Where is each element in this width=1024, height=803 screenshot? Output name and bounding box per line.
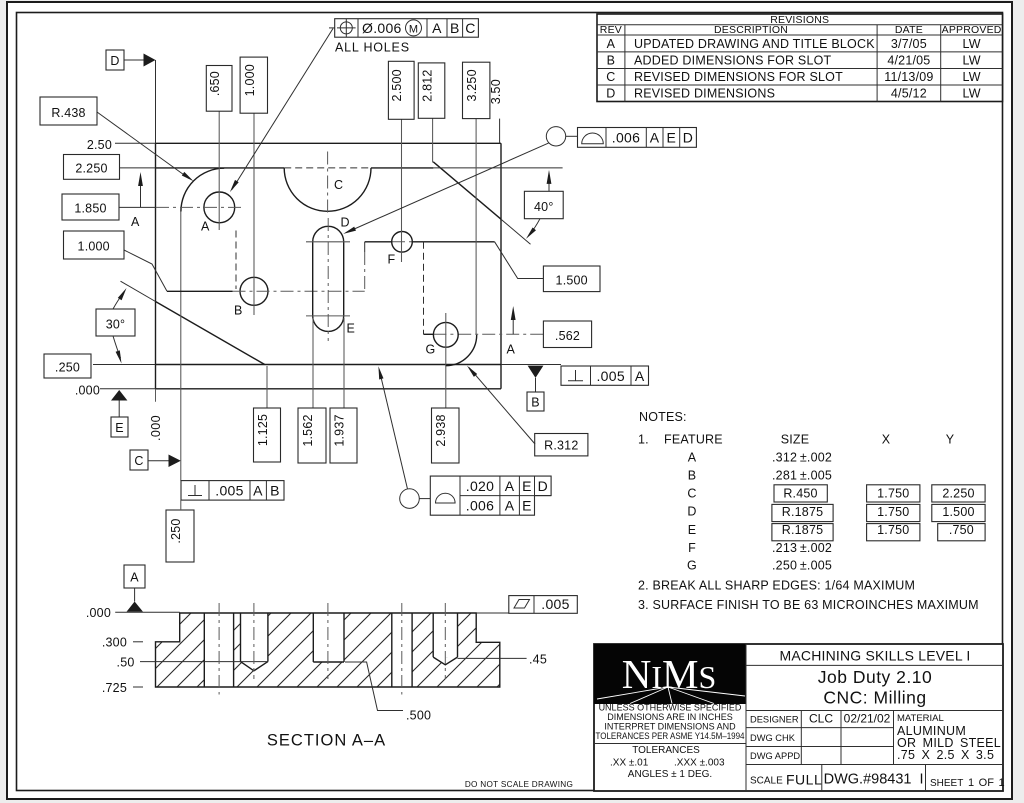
dimension .250 vertical box bbox=[166, 510, 194, 562]
svg-text:1.000: 1.000 bbox=[78, 239, 110, 253]
svg-text:CNC: Milling: CNC: Milling bbox=[823, 688, 926, 708]
svg-text:LW: LW bbox=[962, 87, 980, 101]
svg-text:REV: REV bbox=[600, 24, 622, 36]
40 degree wall extension line bbox=[501, 219, 531, 244]
centerline hole G bbox=[444, 603, 446, 679]
svg-text:A: A bbox=[130, 571, 139, 585]
svg-text:NOTES:: NOTES: bbox=[639, 410, 687, 424]
svg-text:A: A bbox=[507, 343, 516, 357]
top face extension line left bbox=[115, 611, 180, 613]
svg-text:A: A bbox=[607, 37, 616, 51]
centerline hole A bbox=[218, 603, 220, 695]
.45 depth line and label bbox=[458, 657, 527, 659]
svg-text:LW: LW bbox=[962, 70, 980, 84]
svg-text:1.500: 1.500 bbox=[556, 273, 588, 287]
title block grid bbox=[746, 644, 1003, 791]
svg-text:D: D bbox=[341, 216, 350, 230]
part outline left edge bbox=[155, 143, 157, 388]
bottom edge extension left bbox=[100, 388, 156, 390]
top step edge line right of notch C bbox=[371, 167, 433, 169]
svg-text:1.937: 1.937 bbox=[333, 414, 347, 446]
dimension 1.500 box bbox=[543, 266, 600, 292]
svg-text:SHEET: SHEET bbox=[930, 778, 963, 789]
svg-text:1.750: 1.750 bbox=[877, 487, 909, 501]
datum A triangle on top face bbox=[127, 602, 144, 612]
svg-text:E: E bbox=[347, 322, 356, 336]
flatness feature control frame bbox=[509, 596, 578, 614]
svg-text:1.850: 1.850 bbox=[74, 201, 106, 215]
svg-text:1.125: 1.125 bbox=[256, 414, 270, 446]
svg-text:REVISED DIMENSIONS: REVISED DIMENSIONS bbox=[634, 87, 775, 101]
svg-text:2.250: 2.250 bbox=[75, 162, 107, 176]
svg-text:.281 ±.005: .281 ±.005 bbox=[772, 469, 832, 483]
extension line 2.812 to 40deg vertex bbox=[432, 118, 434, 162]
hole G vertical centerline bbox=[445, 313, 447, 408]
left edge datum line below part bbox=[155, 389, 157, 404]
datum C box bbox=[130, 450, 148, 470]
30 degree chamfer wall bbox=[156, 302, 265, 365]
slot D tick bbox=[306, 241, 350, 243]
dimension 1.000 box bbox=[64, 231, 125, 259]
svg-text:C: C bbox=[134, 454, 143, 468]
svg-text:B: B bbox=[270, 482, 280, 498]
all-around circle bottom bbox=[400, 489, 420, 509]
dimension 3.250 vertical box bbox=[463, 62, 490, 118]
svg-text:G: G bbox=[426, 343, 436, 357]
svg-text:B: B bbox=[607, 54, 616, 68]
hole G bore (white) bbox=[433, 613, 457, 657]
dimension .650 vertical box bbox=[206, 66, 232, 112]
svg-text:DWG CHK: DWG CHK bbox=[750, 733, 796, 743]
svg-text:4/5/12: 4/5/12 bbox=[891, 87, 927, 101]
datum B box bbox=[527, 392, 544, 411]
svg-text:DWG APPD: DWG APPD bbox=[750, 751, 800, 761]
svg-text:Ø.006: Ø.006 bbox=[362, 20, 402, 36]
svg-text:E: E bbox=[115, 421, 124, 435]
notch C arc bbox=[284, 168, 371, 211]
svg-text:C: C bbox=[465, 20, 475, 36]
svg-text:1.750: 1.750 bbox=[877, 505, 909, 519]
svg-text:2.250: 2.250 bbox=[942, 487, 974, 501]
svg-text:A: A bbox=[131, 215, 140, 229]
part outline bottom edge bbox=[156, 388, 502, 390]
svg-text:3. SURFACE FINISH TO BE 63 MIC: 3. SURFACE FINISH TO BE 63 MICROINCHES M… bbox=[638, 598, 979, 612]
svg-text:1.: 1. bbox=[638, 433, 649, 447]
svg-text:.006: .006 bbox=[612, 130, 640, 146]
dimension .562 box bbox=[543, 321, 591, 348]
svg-text:DWG.#98431 I: DWG.#98431 I bbox=[824, 772, 924, 788]
svg-text:.XX ±.01: .XX ±.01 bbox=[610, 758, 649, 769]
svg-text:3.50: 3.50 bbox=[489, 79, 503, 104]
dimension 2.812 vertical box bbox=[418, 63, 445, 118]
svg-text:A: A bbox=[505, 478, 515, 494]
svg-text:1 OF 1: 1 OF 1 bbox=[968, 777, 1005, 789]
part outline right edge bbox=[500, 143, 502, 388]
svg-text:LW: LW bbox=[962, 37, 980, 51]
revision table text bbox=[600, 14, 1002, 36]
hole A centerline horizontal / 1.850 dimension line bbox=[120, 206, 157, 208]
slot wall extension lines down bbox=[312, 318, 314, 408]
svg-text:D: D bbox=[110, 54, 119, 68]
svg-text:LW: LW bbox=[962, 54, 980, 68]
svg-text:ADDED DIMENSIONS FOR SLOT: ADDED DIMENSIONS FOR SLOT bbox=[634, 54, 832, 68]
svg-text:M: M bbox=[409, 23, 418, 35]
svg-text:ANGLES ± 1 DEG.: ANGLES ± 1 DEG. bbox=[628, 769, 712, 780]
dimension 1.562 vertical box bbox=[298, 408, 326, 463]
hole F walls bbox=[391, 613, 393, 687]
svg-text:ALL HOLES: ALL HOLES bbox=[335, 41, 410, 55]
svg-text:1.000: 1.000 bbox=[243, 64, 257, 96]
40 deg arrow up bbox=[548, 178, 550, 191]
svg-text:FEATURE: FEATURE bbox=[664, 433, 723, 447]
svg-text:C: C bbox=[687, 487, 696, 501]
svg-text:TOLERANCES: TOLERANCES bbox=[632, 745, 700, 756]
svg-text:.500: .500 bbox=[406, 709, 431, 723]
svg-text:40°: 40° bbox=[534, 200, 554, 214]
datum B triangle bbox=[528, 366, 544, 378]
svg-text:A: A bbox=[253, 482, 263, 498]
slot vertical centerline bbox=[327, 218, 329, 341]
datum E box bbox=[111, 417, 128, 437]
svg-text:E: E bbox=[522, 497, 532, 513]
svg-text:A: A bbox=[650, 130, 660, 146]
dimension 1.937 vertical box bbox=[330, 408, 357, 463]
bottom step line extension left bbox=[93, 364, 156, 366]
svg-text:.000: .000 bbox=[75, 384, 100, 398]
svg-text:DIMENSIONS ARE IN INCHES: DIMENSIONS ARE IN INCHES bbox=[607, 712, 733, 722]
svg-text:UNLESS OTHERWISE SPECIFIED: UNLESS OTHERWISE SPECIFIED bbox=[599, 703, 742, 713]
hole F vertical centerline bbox=[401, 119, 403, 262]
svg-text:Job Duty 2.10: Job Duty 2.10 bbox=[818, 667, 932, 687]
title block frame bbox=[594, 644, 1003, 791]
datum D leader and triangle bbox=[124, 59, 144, 61]
top step line extension right bbox=[433, 167, 562, 169]
svg-text:A: A bbox=[688, 451, 697, 465]
part outline top edge bbox=[156, 142, 502, 144]
svg-text:E: E bbox=[522, 478, 532, 494]
hole A walls bbox=[203, 613, 205, 687]
svg-text:.750: .750 bbox=[949, 523, 974, 537]
svg-text:D: D bbox=[683, 130, 693, 146]
tolerance note block bbox=[596, 703, 745, 742]
extension line 1.125 chamfer end bbox=[266, 366, 268, 408]
svg-text:.000: .000 bbox=[149, 415, 163, 441]
svg-text:DATE: DATE bbox=[895, 24, 923, 36]
svg-text:DESCRIPTION: DESCRIPTION bbox=[714, 24, 788, 36]
svg-text:D: D bbox=[687, 505, 696, 519]
dimension 2.500 vertical box bbox=[388, 61, 414, 119]
svg-text:APPROVED: APPROVED bbox=[942, 24, 1002, 36]
slot E tick bbox=[306, 315, 350, 317]
svg-text:2.500: 2.500 bbox=[390, 69, 404, 101]
dimension .250 box bbox=[44, 354, 91, 378]
svg-text:TOLERANCES PER ASME Y14.5M–199: TOLERANCES PER ASME Y14.5M–1994 bbox=[596, 731, 745, 741]
hole F bbox=[392, 232, 413, 253]
hidden step edge across notch C bbox=[284, 167, 371, 169]
svg-text:MATERIAL: MATERIAL bbox=[897, 713, 944, 724]
40 deg arrow down bbox=[530, 219, 540, 234]
svg-text:R.438: R.438 bbox=[51, 106, 85, 120]
svg-text:2.938: 2.938 bbox=[434, 414, 448, 446]
svg-text:A: A bbox=[432, 20, 442, 36]
slot bore (white) bbox=[313, 613, 344, 662]
extension line .650 through hole A bbox=[218, 111, 220, 230]
extension line 3.50 right edge bbox=[499, 119, 501, 144]
svg-text:.005: .005 bbox=[596, 368, 624, 384]
perpendicularity frame .005 A B bbox=[181, 481, 284, 501]
hidden pocket edge between A and B bbox=[235, 231, 237, 290]
datum D box bbox=[106, 50, 124, 70]
svg-text:R.1875: R.1875 bbox=[782, 523, 824, 537]
B centerline through slot bbox=[233, 290, 365, 292]
R.312 leader with arrow bbox=[469, 368, 535, 445]
leader bottom FCF to step line bbox=[379, 370, 407, 489]
40 degree angled wall bbox=[433, 162, 501, 219]
svg-text:2.50: 2.50 bbox=[87, 138, 112, 152]
dimension 30 deg box bbox=[96, 309, 135, 336]
svg-text:MACHINING SKILLS LEVEL I: MACHINING SKILLS LEVEL I bbox=[779, 648, 970, 664]
svg-text:B: B bbox=[531, 396, 540, 410]
bottom step edge line bbox=[156, 364, 502, 366]
svg-text:2. BREAK ALL SHARP EDGES: 1/64: 2. BREAK ALL SHARP EDGES: 1/64 MAXIMUM bbox=[638, 579, 915, 593]
slot D-E obround bbox=[313, 226, 344, 331]
svg-text:DESIGNER: DESIGNER bbox=[750, 715, 799, 725]
svg-text:1.562: 1.562 bbox=[301, 414, 315, 446]
svg-text:.50: .50 bbox=[117, 656, 135, 670]
dimension 1.850 box bbox=[62, 194, 119, 220]
30 deg arrow down bbox=[113, 336, 121, 358]
svg-text:.213 ±.002: .213 ±.002 bbox=[772, 541, 832, 555]
revision table grid bbox=[597, 25, 1003, 102]
dimension 2.938 vertical box bbox=[432, 408, 460, 463]
svg-text:SIZE: SIZE bbox=[781, 433, 810, 447]
dimension 1.125 vertical box bbox=[254, 408, 281, 462]
leader profile FCF to slot D bbox=[348, 143, 549, 232]
svg-text:A: A bbox=[505, 497, 515, 513]
R.438 pocket corner fillet arc bbox=[181, 168, 224, 211]
svg-text:.250: .250 bbox=[55, 360, 80, 374]
datum E triangle bbox=[111, 390, 127, 401]
R.312 label box bbox=[535, 434, 588, 456]
perpendicularity frame .005 A bbox=[561, 366, 649, 385]
R.438 leader with arrow bbox=[97, 112, 189, 179]
svg-text:INTERPRET DIMENSIONS AND: INTERPRET DIMENSIONS AND bbox=[604, 722, 736, 732]
30 degree chamfer extension line bbox=[121, 281, 156, 301]
svg-text:.005: .005 bbox=[541, 596, 569, 612]
svg-text:CLC: CLC bbox=[809, 712, 833, 726]
svg-text:.562: .562 bbox=[555, 329, 580, 343]
pocket left edge extension line down to datum C bbox=[180, 212, 182, 481]
svg-text:F: F bbox=[388, 253, 396, 267]
svg-text:E: E bbox=[688, 523, 697, 537]
svg-text:REVISED DIMENSIONS FOR SLOT: REVISED DIMENSIONS FOR SLOT bbox=[634, 70, 843, 84]
extension line 3.250 down to fillet bbox=[475, 119, 477, 335]
svg-text:B: B bbox=[688, 469, 697, 483]
section arrow A left bbox=[140, 180, 142, 207]
centerline hole F bbox=[401, 603, 403, 695]
svg-text:.XXX ±.003: .XXX ±.003 bbox=[674, 758, 725, 769]
hole F bore (white) bbox=[392, 613, 412, 687]
left edge extension up to datum D bbox=[155, 60, 157, 143]
dimension 40 deg box bbox=[524, 191, 563, 218]
svg-text:11/13/09: 11/13/09 bbox=[884, 70, 933, 84]
.500 leader and label bbox=[345, 662, 403, 711]
svg-text:.300: .300 bbox=[102, 636, 127, 650]
svg-text:SECTION A–A: SECTION A–A bbox=[267, 732, 386, 750]
revision table frame bbox=[597, 14, 1003, 102]
svg-text:UPDATED DRAWING AND TITLE: UPDATED DRAWING AND TITLE BLOCK bbox=[634, 37, 875, 51]
1.000 leader to pocket corner bbox=[124, 250, 167, 291]
profile FCF bottom (two tier) bbox=[430, 476, 551, 515]
pocket edge at G level bbox=[424, 333, 434, 335]
svg-text:FULL: FULL bbox=[786, 772, 822, 788]
svg-text:02/21/02: 02/21/02 bbox=[844, 712, 891, 726]
pocket edge at F level bbox=[365, 241, 392, 243]
top face extension line right to flatness frame bbox=[476, 612, 509, 614]
svg-text:3.250: 3.250 bbox=[465, 69, 479, 101]
svg-text:C: C bbox=[606, 70, 615, 84]
svg-text:A: A bbox=[635, 368, 645, 384]
svg-text:SCALE: SCALE bbox=[750, 776, 783, 787]
svg-text:.75 X 2.5 X 3.5: .75 X 2.5 X 3.5 bbox=[897, 748, 994, 762]
profile FCF top right bbox=[578, 128, 697, 148]
slot walls and flat bottom bbox=[312, 613, 314, 662]
svg-text:2.812: 2.812 bbox=[421, 69, 435, 101]
svg-text:F: F bbox=[688, 541, 696, 555]
hole A bbox=[204, 192, 235, 223]
notch C centerline bbox=[327, 152, 329, 216]
hole G walls and point bbox=[432, 613, 434, 657]
svg-text:X: X bbox=[882, 433, 891, 447]
.50 depth line through section bbox=[140, 661, 268, 663]
hole B bore (white) bbox=[241, 613, 268, 662]
NIMS logo bbox=[594, 644, 746, 704]
svg-text:.000: .000 bbox=[86, 606, 111, 620]
svg-text:A: A bbox=[201, 220, 210, 234]
svg-text:B: B bbox=[234, 304, 243, 318]
position FCF top bbox=[335, 19, 479, 38]
svg-text:D: D bbox=[538, 478, 548, 494]
svg-text:3/7/05: 3/7/05 bbox=[891, 37, 927, 51]
dimension 1.000 vertical box bbox=[240, 57, 267, 113]
hole A bore (white) bbox=[204, 613, 233, 687]
svg-text:.650: .650 bbox=[208, 71, 222, 96]
svg-text:.005: .005 bbox=[215, 482, 243, 498]
top step edge line left of notch C bbox=[156, 167, 285, 169]
svg-text:.250 ±.005: .250 ±.005 bbox=[772, 559, 832, 573]
R.312 pocket corner fillet arc bbox=[446, 335, 477, 366]
pocket vertical edge left of F bbox=[364, 242, 366, 252]
svg-text:R.312: R.312 bbox=[544, 439, 578, 453]
svg-text:C: C bbox=[334, 178, 343, 192]
G centerline extension right to .562 bbox=[458, 333, 543, 335]
1.500 leader bbox=[495, 242, 544, 279]
svg-text:Y: Y bbox=[946, 433, 955, 447]
extension line 1.000 through hole B bbox=[253, 113, 255, 315]
hole B bbox=[240, 277, 268, 305]
svg-text:.725: .725 bbox=[102, 681, 127, 695]
svg-text:.020: .020 bbox=[466, 478, 494, 494]
pocket bottom-left edge at B level bbox=[167, 290, 233, 292]
svg-text:.45: .45 bbox=[529, 652, 547, 666]
datum A box bbox=[124, 565, 145, 588]
svg-text:G: G bbox=[687, 559, 697, 573]
svg-text:D: D bbox=[606, 87, 615, 101]
leader FCF to hole A bbox=[329, 27, 335, 29]
centerline slot bbox=[327, 603, 329, 679]
bottom step line extension right bbox=[501, 364, 561, 366]
svg-text:R.450: R.450 bbox=[783, 487, 817, 501]
30 deg arrow up bbox=[113, 294, 123, 310]
svg-text:DO NOT SCALE DRAWING: DO NOT SCALE DRAWING bbox=[465, 780, 573, 789]
R.438 label box bbox=[40, 97, 97, 125]
hole B walls and point bbox=[240, 613, 242, 662]
section body hatched profile bbox=[156, 613, 500, 687]
svg-text:4/21/05: 4/21/05 bbox=[887, 54, 930, 68]
hole G bbox=[433, 322, 458, 347]
hidden pocket edge F to G bbox=[423, 242, 425, 334]
svg-text:30°: 30° bbox=[106, 318, 126, 332]
svg-text:.006: .006 bbox=[466, 497, 494, 513]
svg-text:R.1875: R.1875 bbox=[782, 505, 824, 519]
svg-text:.312 ±.002: .312 ±.002 bbox=[772, 451, 832, 465]
svg-text:E: E bbox=[666, 130, 676, 146]
centerline hole B bbox=[253, 603, 255, 679]
svg-text:1.500: 1.500 bbox=[942, 505, 974, 519]
svg-text:.250: .250 bbox=[169, 518, 183, 543]
section arrow A right bbox=[512, 314, 514, 334]
svg-text:1.750: 1.750 bbox=[877, 523, 909, 537]
svg-text:B: B bbox=[450, 20, 460, 36]
datum C leader and triangle bbox=[148, 460, 169, 462]
all-around circle top right bbox=[546, 127, 565, 146]
dimension 2.250 box bbox=[64, 155, 120, 180]
section outline bbox=[156, 613, 500, 687]
